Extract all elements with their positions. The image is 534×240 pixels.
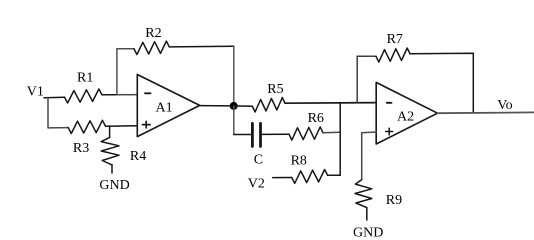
wire R8 to summing vertical (328, 174, 341, 176)
wire A1 output to node (200, 105, 234, 107)
wire A2 output to Vo (438, 111, 534, 114)
resistor R4 (101, 137, 146, 165)
svg-text:R9: R9 (386, 193, 402, 208)
wire junction to A1 inverting input (117, 94, 137, 96)
wire R5 to A2 inverting input (285, 102, 376, 105)
wire R2 to output node (169, 45, 234, 48)
svg-text:GND: GND (353, 225, 383, 238)
svg-text:R3: R3 (73, 141, 89, 156)
wire V2 to R8 (273, 177, 292, 179)
svg-text:R5: R5 (267, 82, 283, 97)
svg-text:R1: R1 (77, 71, 93, 86)
resistor R8 (291, 153, 328, 183)
wire V1 to R1 (44, 96, 65, 99)
svg-text:R4: R4 (130, 149, 146, 164)
wire R2 down to node (233, 46, 235, 106)
node V1 (27, 85, 44, 100)
svg-text:V2: V2 (248, 177, 265, 192)
ground GND under R9 (353, 225, 383, 240)
wire junction up to R2 (117, 49, 134, 95)
wire junction up to R7 (357, 56, 376, 102)
wire junction down to R4 (109, 126, 111, 137)
svg-text:R7: R7 (387, 32, 403, 47)
resistor R2 (134, 26, 169, 54)
resistor R1 (65, 71, 103, 103)
wire R7 to A2 output (410, 53, 473, 113)
wire node to R5 (234, 105, 253, 107)
resistor R7 (376, 32, 410, 62)
svg-text:C: C (254, 153, 263, 168)
capacitor C (252, 123, 263, 167)
wire R1 to A1 inverting input (102, 94, 117, 96)
op-amp A1 (137, 75, 199, 137)
wire node down to C (233, 106, 235, 135)
resistor R3 (68, 120, 105, 156)
wire R3 to A1 non-inverting input (106, 125, 138, 128)
op-amp A2 (376, 82, 437, 144)
node V2 (248, 177, 265, 192)
svg-text:A2: A2 (397, 110, 414, 125)
svg-text:R6: R6 (308, 111, 324, 126)
wire V1 down branch (48, 98, 68, 128)
svg-text:Vo: Vo (497, 98, 512, 113)
node junction dot (230, 102, 238, 110)
wire A2 non-inverting input down to R9 (362, 132, 377, 180)
svg-text:GND: GND (99, 178, 129, 193)
node Vo (497, 98, 512, 113)
resistor R6 (289, 111, 324, 140)
ground GND under R4 (99, 178, 129, 193)
wire C to R6 (262, 133, 289, 135)
wire R4 tail (111, 165, 113, 173)
wire R9 tail (366, 208, 368, 220)
svg-text:V1: V1 (27, 85, 44, 100)
wire summing vertical (339, 103, 341, 176)
wire R6 to summing vertical (323, 131, 340, 134)
svg-text:A1: A1 (156, 101, 173, 116)
wire to capacitor (234, 134, 251, 136)
svg-text:R2: R2 (145, 26, 161, 41)
resistor R9 (355, 180, 402, 209)
resistor R5 (252, 82, 285, 112)
svg-text:R8: R8 (291, 153, 307, 168)
